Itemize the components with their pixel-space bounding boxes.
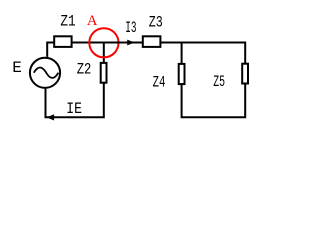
resistor Z1	[54, 36, 71, 47]
svg-text:Z2: Z2	[77, 60, 92, 78]
wire	[72, 42, 90, 44]
wire	[160, 43, 246, 64]
svg-text:Z3: Z3	[149, 13, 163, 31]
resistor Z5	[242, 64, 248, 84]
resistor Z2	[101, 63, 107, 83]
svg-text:I3: I3	[125, 19, 136, 37]
svg-text:A: A	[87, 13, 98, 29]
wire	[182, 83, 246, 117]
ammeter A	[89, 28, 118, 57]
resistor Z3	[143, 36, 161, 47]
wire	[46, 83, 104, 117]
svg-text:E: E	[12, 59, 22, 77]
svg-text:Z1: Z1	[60, 13, 75, 31]
wire	[181, 43, 183, 64]
arrowhead I3	[127, 40, 134, 46]
svg-text:IE: IE	[66, 100, 82, 118]
svg-text:Z5: Z5	[213, 73, 225, 91]
resistor Z4	[179, 64, 185, 84]
wire	[88, 42, 117, 44]
wire	[117, 42, 144, 44]
wire	[103, 43, 105, 63]
wire	[47, 43, 54, 57]
svg-text:Z4: Z4	[153, 73, 166, 91]
arrowhead IE	[47, 114, 55, 120]
voltage source E	[30, 58, 60, 88]
